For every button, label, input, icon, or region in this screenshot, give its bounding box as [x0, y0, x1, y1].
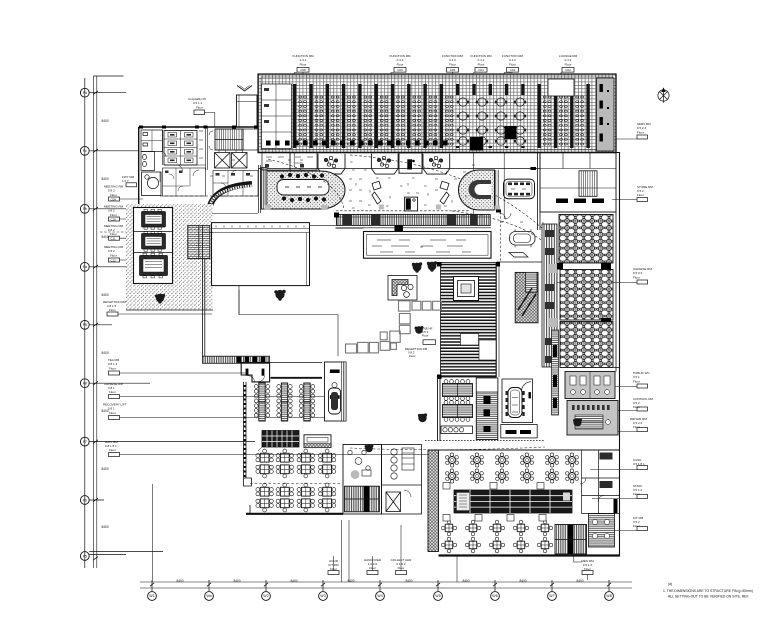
kitchen corridor tree	[418, 413, 427, 422]
dining tables bottom grid	[256, 449, 336, 512]
general note text	[663, 582, 753, 599]
courtyard platform	[212, 223, 310, 286]
top label cluster 6	[559, 54, 578, 67]
concourse edge line full	[336, 227, 492, 229]
svg-text:0 4 2: 0 4 2	[449, 58, 456, 62]
meeting table 3 large	[140, 256, 168, 276]
svg-text:W8: W8	[606, 594, 611, 598]
vanity room with basin circle	[142, 172, 162, 196]
wc stall block	[164, 131, 197, 166]
lobby north corridor line	[258, 168, 540, 170]
top label cluster 4	[471, 54, 492, 67]
dining tables top group	[254, 383, 314, 421]
hall black column square 1	[505, 126, 517, 139]
svg-text:Wa: Wa	[206, 594, 211, 598]
svg-text:Floor: Floor	[449, 63, 456, 67]
lounge bench east	[440, 181, 449, 204]
main stair	[215, 129, 243, 150]
svg-text:8400: 8400	[290, 579, 297, 583]
top label leader lines	[294, 72, 562, 219]
concourse dashed boundary	[336, 210, 470, 212]
white aisle squares between rows	[443, 483, 546, 522]
wing-lobby dashed corridor	[100, 231, 126, 233]
conference table east	[504, 179, 535, 199]
east rooms partitions	[580, 450, 620, 514]
meeting table 1	[142, 212, 166, 228]
wc stall door marks	[170, 134, 191, 161]
svg-text:Floor: Floor	[109, 390, 116, 394]
left grid stub lines	[89, 93, 255, 555]
banquet table rows (dark bars with chair ellipses)	[293, 84, 590, 148]
svg-text:Floor: Floor	[509, 63, 516, 67]
corridor dotted edge	[425, 440, 545, 442]
spa room	[325, 362, 347, 421]
banquet hall floor grid	[258, 74, 616, 153]
svg-text:F6: F6	[83, 499, 87, 503]
right label r6	[630, 417, 647, 429]
vip oval table room	[502, 379, 533, 423]
svg-text:0 5 1: 0 5 1	[633, 375, 640, 379]
staff servery counter	[441, 426, 473, 434]
svg-text:C10: C10	[111, 217, 117, 221]
dashed route bottom	[350, 447, 545, 450]
hospitality lift leader	[205, 113, 215, 128]
retail bay 2	[371, 154, 398, 174]
svg-text:Floor: Floor	[633, 524, 640, 528]
kitchen west wall	[438, 377, 441, 441]
lobby scatter marks	[210, 160, 563, 247]
garden tree 2	[274, 290, 285, 301]
inner kitchen room	[343, 445, 382, 515]
svg-text:8400: 8400	[102, 467, 109, 471]
left grid bubble letters	[83, 91, 87, 559]
svg-text:Floor: Floor	[565, 63, 572, 67]
left label set2 - 1	[108, 358, 120, 371]
bottom-right shelving room	[589, 514, 615, 548]
long vertical reference lines to bottom axis	[152, 484, 457, 582]
svg-text:Floor: Floor	[109, 308, 116, 312]
svg-text:8400: 8400	[176, 579, 183, 583]
pool water feature	[364, 232, 492, 259]
left meeting label leaders	[120, 199, 144, 260]
garden south boundary	[126, 309, 213, 311]
ahu room	[163, 168, 206, 196]
svg-text:C11: C11	[111, 237, 116, 241]
retail bay 1	[318, 154, 345, 174]
svg-text:Floor: Floor	[196, 106, 203, 110]
wing lower corridor dashes	[160, 195, 258, 197]
public wc gray room 1	[565, 372, 615, 399]
svg-text:F7: F7	[83, 440, 87, 444]
left meeting room label 4	[104, 245, 124, 258]
court west wall	[203, 226, 205, 357]
svg-text:0 8 2: 0 8 2	[108, 249, 115, 253]
deck white inset patch	[461, 334, 479, 346]
right label r3	[633, 267, 652, 280]
right label r7	[633, 458, 645, 466]
svg-text:8400: 8400	[519, 579, 526, 583]
top label cluster 3	[442, 54, 463, 67]
svg-text:8400: 8400	[405, 579, 412, 583]
svg-text:Fb: Fb	[83, 207, 87, 211]
white function room in hall	[548, 79, 574, 96]
left meeting room label 3	[104, 224, 124, 236]
left meeting room label 1	[104, 185, 124, 197]
service counters with black bars	[501, 425, 537, 438]
svg-text:Floor: Floor	[633, 425, 640, 429]
gray gallery dark fittings	[600, 84, 610, 142]
svg-text:W4: W4	[377, 594, 382, 598]
svg-text:F8: F8	[83, 382, 87, 386]
servery counter dark	[258, 431, 299, 452]
svg-text:0 8 1 3: 0 8 1 3	[108, 362, 118, 366]
left label set2 - 4	[105, 440, 118, 452]
svg-text:0 5 0 3: 0 5 0 3	[633, 271, 643, 275]
svg-text:8400: 8400	[233, 579, 240, 583]
directory kiosk center	[405, 197, 418, 211]
reception desk west (rounded)	[261, 168, 345, 211]
corridor rooms below hall west	[262, 153, 317, 171]
gray mat west	[379, 205, 384, 210]
timber deck dark striped area	[441, 263, 497, 378]
svg-text:Floor: Floor	[110, 232, 117, 236]
svg-text:ALL SETTING-OUT TO BE VERIFIED: ALL SETTING-OUT TO BE VERIFIED ON SITE, …	[668, 595, 749, 599]
svg-text:0 8 1: 0 8 1	[108, 407, 115, 411]
lounge suite room	[388, 276, 417, 301]
gray service room top right	[566, 400, 568, 402]
main room boundary	[428, 449, 620, 451]
door arcs south of desk	[499, 213, 511, 219]
banquet hall inner top border	[261, 77, 613, 150]
left dimension chain lines	[94, 76, 97, 568]
svg-text:F9: F9	[83, 323, 87, 327]
svg-text:Floor: Floor	[633, 276, 640, 280]
svg-text:8400: 8400	[102, 525, 109, 529]
svg-text:Floor: Floor	[300, 63, 307, 67]
lobby west wall	[259, 165, 261, 213]
curved corridor wall band	[210, 184, 252, 206]
svg-text:Floor: Floor	[637, 193, 644, 197]
black fitting bar	[614, 499, 618, 513]
stair side room	[243, 129, 258, 150]
svg-text:C05: C05	[450, 68, 456, 72]
svg-text:Fc: Fc	[83, 149, 87, 153]
right label r1	[637, 122, 651, 135]
svg-text:C12: C12	[111, 258, 117, 262]
bottom escalator	[555, 525, 587, 555]
entry vestibule	[241, 362, 269, 382]
bottom dimension figures	[176, 579, 583, 583]
svg-text:W1: W1	[149, 594, 154, 598]
svg-text:Floor: Floor	[633, 492, 640, 496]
right label r9	[633, 516, 644, 528]
left wing outer walls	[139, 127, 258, 205]
retail bay 3	[423, 154, 450, 174]
hospitality lift label	[189, 97, 206, 110]
svg-text:W7: W7	[549, 594, 554, 598]
left grid bubbles	[80, 88, 89, 560]
round table row top	[446, 453, 579, 483]
bottom grid stubs	[152, 580, 609, 591]
meeting table chairs	[143, 209, 162, 278]
top label cluster 1	[293, 54, 314, 67]
lobby dashed arcs	[268, 159, 344, 210]
hall south wall fittings dash row	[266, 141, 448, 146]
svg-text:8400: 8400	[102, 293, 109, 297]
svg-text:Floor: Floor	[109, 367, 116, 371]
THE HF in-plan label	[422, 327, 433, 338]
elevator pair	[215, 150, 248, 168]
svg-text:0 4 2: 0 4 2	[300, 58, 307, 62]
trees north of deck	[412, 261, 437, 272]
floor pattern marks	[288, 160, 475, 201]
tree at cascade	[415, 326, 424, 334]
right label r8	[633, 484, 643, 496]
servery counter light	[304, 435, 331, 448]
svg-text:Floor: Floor	[409, 354, 416, 358]
black kiosk below band	[395, 225, 404, 232]
restaurant boundary walls	[246, 513, 343, 515]
banquet round-table zone east	[455, 95, 537, 146]
long vertical line x202 extension	[202, 356, 204, 358]
svg-text:8400: 8400	[102, 351, 109, 355]
wing corridor rooms	[213, 171, 258, 197]
svg-text:C02: C02	[565, 68, 571, 72]
court dashed corridor east	[500, 212, 502, 262]
storeroom row under hall	[540, 153, 616, 213]
wing south access stair dash	[212, 213, 258, 215]
kitchen escalator	[476, 378, 498, 440]
compass symbol	[658, 88, 669, 103]
canopy chevron mark	[237, 86, 252, 92]
svg-text:W3: W3	[320, 594, 325, 598]
svg-text:8400: 8400	[102, 235, 109, 239]
planter squares cascade	[346, 301, 442, 353]
svg-text:0 4 2: 0 4 2	[509, 58, 516, 62]
svg-text:Floor: Floor	[109, 411, 116, 415]
east block outer wall	[606, 153, 620, 557]
wing top wall column blocks	[139, 126, 258, 129]
bottom grid bubble letters	[149, 594, 611, 598]
black fitting on corridor	[531, 167, 537, 170]
deck pavilion white square	[454, 277, 479, 301]
hall south wall	[258, 152, 616, 154]
dining block B round tables	[560, 270, 613, 321]
wing inner corridor walls	[163, 127, 208, 170]
corridor wall east of conference	[538, 153, 541, 231]
bottom dimension ticks	[150, 583, 611, 586]
service lift	[386, 492, 401, 512]
svg-text:8400: 8400	[102, 119, 109, 123]
svg-text:Floor: Floor	[478, 63, 485, 67]
banquet hall west service rooms	[262, 84, 292, 149]
entry comb band	[203, 356, 270, 363]
hall east gray gallery strip	[597, 78, 615, 151]
top label cluster 5	[502, 54, 523, 67]
right label r2	[637, 185, 653, 197]
right label r4	[633, 371, 651, 384]
svg-text:C06: C06	[397, 68, 403, 72]
bottom label cluster b2	[364, 558, 382, 570]
buffet dark band	[454, 490, 572, 513]
store stair	[579, 171, 597, 197]
car display	[509, 229, 535, 257]
svg-text:C04: C04	[478, 68, 484, 72]
svg-text:F5: F5	[83, 555, 87, 559]
svg-text:0 4 2: 0 4 2	[478, 58, 485, 62]
top label cluster 2	[390, 54, 411, 67]
tree at kitchen top	[365, 445, 374, 453]
svg-text:Floor: Floor	[109, 448, 116, 452]
svg-text:W6: W6	[492, 594, 497, 598]
svg-text:Floor: Floor	[637, 131, 644, 135]
svg-text:Floor: Floor	[110, 254, 117, 258]
corridor solid line	[497, 261, 546, 263]
kiosk room between bays	[399, 153, 422, 173]
svg-text:8400: 8400	[576, 579, 583, 583]
bottom label cluster b3	[391, 558, 413, 570]
left meeting room label 2	[104, 205, 124, 217]
reception rm tiny text	[405, 347, 428, 358]
void east boundary	[337, 315, 339, 357]
concierge horseshoe desk	[459, 170, 495, 210]
turnstile comb band	[336, 214, 490, 225]
svg-text:0 4 2: 0 4 2	[397, 58, 404, 62]
svg-text:Floor: Floor	[110, 193, 117, 197]
bottom label cluster b4	[581, 559, 594, 571]
hall outer boundary right step	[615, 74, 617, 153]
svg-text:Floor: Floor	[422, 334, 429, 338]
wing door arcs	[161, 152, 199, 177]
left dimension ticks	[93, 91, 98, 560]
lounge bench west	[372, 181, 381, 204]
restaurant west colonnade wall	[244, 382, 252, 486]
wing mid corridor marks	[199, 131, 213, 158]
svg-text:C09: C09	[111, 197, 117, 201]
staff dining table group 1	[443, 380, 473, 401]
wc west rooms	[141, 130, 163, 171]
svg-text:8400: 8400	[347, 579, 354, 583]
left label set2 - 2	[104, 382, 123, 394]
hatched feature stair	[515, 272, 538, 322]
svg-text:Floor: Floor	[110, 213, 117, 217]
svg-text:8400: 8400	[462, 579, 469, 583]
right label r5	[633, 397, 654, 409]
corridor corner arc	[522, 382, 532, 392]
svg-text:0 4 2: 0 4 2	[565, 58, 572, 62]
svg-text:0 5 2 2: 0 5 2 2	[637, 126, 647, 130]
buffet counter dashes	[556, 199, 604, 204]
lobby floor scatter marks 2	[350, 160, 483, 215]
svg-text:C08: C08	[300, 68, 306, 72]
walkway line west of pool	[310, 226, 364, 229]
left dimension figures	[102, 119, 109, 529]
svg-text:C03: C03	[510, 68, 516, 72]
svg-text:1. THE DIMENSIONS ARE TO STRUC: 1. THE DIMENSIONS ARE TO STRUCTURE FIN.(…	[663, 589, 753, 593]
black columns at deck corners	[437, 262, 549, 379]
bottom label cluster b1	[328, 559, 339, 571]
dining block A round tables	[559, 215, 613, 264]
svg-text:W5: W5	[435, 594, 440, 598]
west hatched wall strip	[428, 450, 439, 552]
garden access dashed path	[203, 232, 214, 234]
meeting table 2	[142, 234, 166, 250]
deck access white strip	[479, 340, 496, 360]
svg-text:W2: W2	[263, 594, 268, 598]
stipple landscape bed	[126, 204, 213, 310]
left grid axis line	[84, 78, 86, 568]
bottom dimension chain lines	[140, 582, 632, 588]
svg-text:1 0 7: 1 0 7	[122, 179, 129, 183]
entrance canopy bay	[237, 95, 258, 127]
square table rows bottom	[441, 520, 552, 553]
dining block C round tables	[560, 322, 613, 368]
east wing corridor walls	[614, 212, 620, 372]
west stair to court	[188, 226, 210, 259]
svg-text:(a): (a)	[668, 582, 672, 586]
bottom label leaders	[334, 525, 588, 580]
black column at band west end	[334, 213, 339, 218]
dashed aisle line	[250, 483, 340, 485]
gray mat east	[436, 205, 441, 210]
svg-text:RECOVERY LIFT: RECOVERY LIFT	[103, 403, 127, 407]
corridor column zipper	[552, 330, 559, 415]
bottom grid bubbles	[148, 592, 614, 601]
svg-text:Floor: Floor	[397, 63, 404, 67]
svg-text:0 6 1 4: 0 6 1 4	[193, 101, 203, 105]
garden tree 1	[155, 294, 165, 304]
left label set2 - 3	[103, 403, 127, 416]
svg-text:Floor: Floor	[633, 380, 640, 384]
wash room	[382, 445, 422, 515]
hall black column square 2	[470, 137, 483, 151]
void west boundary	[238, 290, 240, 315]
tree east	[573, 419, 582, 427]
meeting room block outline	[134, 208, 173, 284]
black wall blocks between dining blocks	[557, 263, 611, 322]
left reception label	[103, 300, 127, 312]
deck east edge walls	[497, 263, 500, 378]
svg-text:Fa: Fa	[83, 265, 87, 269]
court inner step lines	[239, 286, 338, 315]
left label: FWY RM	[122, 175, 135, 183]
staff dining table group 2	[443, 401, 473, 422]
chinese restaurant booth strip	[542, 224, 557, 367]
svg-text:Fd: Fd	[83, 91, 87, 95]
desk partition wall	[496, 170, 498, 210]
inner escalator	[344, 486, 379, 512]
public wc gray room 2	[567, 401, 618, 436]
svg-text:8400: 8400	[102, 177, 109, 181]
